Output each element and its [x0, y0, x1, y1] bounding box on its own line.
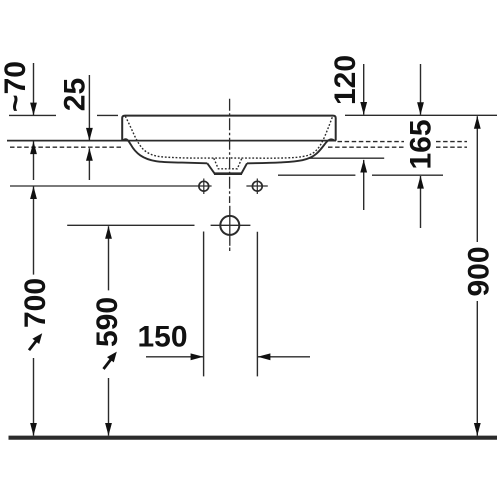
dim 700 line — [33, 186, 35, 435]
washbasin drain inner dotted — [214, 158, 242, 169]
arrowhead ~70 down — [30, 103, 37, 116]
ground floor line — [9, 436, 498, 440]
arrowhead 165 down — [417, 102, 424, 115]
arrowhead 150 left — [258, 353, 271, 360]
drain hole circle — [220, 216, 239, 235]
svg-text:590: 590 — [91, 297, 124, 347]
arrowhead 900 up — [474, 116, 481, 129]
tap hole left circle — [199, 181, 209, 191]
arrowhead 165 up — [417, 176, 424, 189]
wire basin inner-bottom extension (120 ref) — [308, 157, 384, 159]
wire tap-hole height line — [10, 185, 268, 187]
svg-text:700: 700 — [19, 278, 52, 328]
svg-text:150: 150 — [137, 321, 187, 354]
arrowhead 120 up — [360, 160, 367, 173]
washbasin bowl inner dotted right — [230, 117, 332, 158]
washbasin bowl outer solid right — [247, 139, 334, 163]
dim 900 line — [476, 116, 478, 435]
svg-text:120: 120 — [329, 55, 362, 105]
wire counter bottom dashed — [10, 146, 467, 148]
node centerline — [229, 99, 231, 203]
arrowhead 590 down floor — [105, 423, 112, 436]
washbasin rim outline — [122, 116, 336, 141]
arrowhead 590 up — [105, 226, 112, 239]
arrowhead 120 down — [360, 102, 367, 115]
arrowhead 700 up — [30, 186, 37, 199]
arrowhead 900 down floor — [474, 423, 481, 436]
dim ~70 line — [33, 63, 35, 180]
wire rim-top extension left L1 — [9, 114, 118, 116]
tap hole right circle — [252, 181, 262, 191]
svg-text:~70: ~70 — [0, 61, 32, 112]
leader arrow 700 — [29, 333, 42, 350]
svg-text:165: 165 — [405, 119, 438, 169]
arrowhead 150 right — [191, 353, 204, 360]
dim 120 lines — [363, 64, 365, 210]
wire rim-top extension right R1 — [345, 114, 497, 116]
svg-text:25: 25 — [59, 78, 92, 111]
wire drain height line — [67, 224, 250, 226]
wire basin under-bottom extension (165 ref) — [278, 174, 443, 176]
leader arrow 590 — [104, 352, 117, 369]
svg-text:900: 900 — [463, 246, 496, 296]
arrowhead 25 up — [86, 148, 93, 161]
washbasin bowl outer solid left — [123, 139, 207, 163]
washbasin bowl inner dotted left — [125, 116, 230, 158]
arrowhead 25 down — [86, 128, 93, 141]
dim 165 lines — [420, 64, 422, 228]
dim 590 line — [108, 226, 110, 435]
wire counter top dashed right — [338, 141, 468, 143]
washbasin drain fitting outer — [207, 163, 247, 173]
arrowhead 700 down floor — [30, 423, 37, 436]
dim 25 line — [88, 75, 90, 180]
arrowhead ~70 up — [30, 141, 37, 154]
wire counter top line — [7, 140, 336, 142]
dim 150 lines — [204, 232, 258, 377]
